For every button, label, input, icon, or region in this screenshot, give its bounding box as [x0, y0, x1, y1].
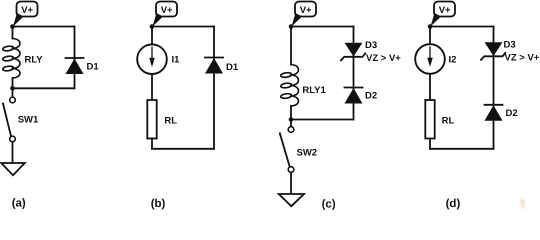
power flag V+ (b) — [153, 2, 178, 27]
svg-text:(a): (a) — [12, 198, 26, 210]
svg-text:I1: I1 — [172, 54, 181, 65]
wire: switch to ground (c) — [290, 172, 292, 193]
wire: V+ to current source (d) — [429, 27, 431, 44]
node: bottom junction dot (c) — [289, 117, 294, 122]
resistor RL (d) — [425, 100, 434, 139]
power flag V+ (d) — [431, 2, 456, 27]
svg-text:RL: RL — [164, 116, 177, 127]
wire: right vertical branch (c) — [353, 27, 355, 120]
svg-text:D1: D1 — [87, 62, 100, 73]
switch SW2 — [280, 127, 294, 173]
wire: switch to ground (a) — [12, 142, 14, 162]
wire: top rail (c) — [291, 26, 354, 28]
svg-text:SW2: SW2 — [297, 148, 318, 159]
wire: right vertical branch (b) — [213, 27, 215, 149]
wire: coil bottom to junction (c) — [290, 106, 292, 120]
diode D2 (c) — [345, 88, 363, 104]
inductor RLY (a) — [2, 39, 20, 79]
svg-text:D1: D1 — [226, 62, 239, 73]
svg-text:VZ > V+: VZ > V+ — [505, 53, 540, 64]
svg-text:D3: D3 — [504, 40, 516, 51]
node: V+ junction dot (a) — [10, 24, 15, 29]
inductor RLY1 — [280, 65, 298, 107]
zener diode D3 (d) — [481, 42, 505, 60]
svg-text:V+: V+ — [439, 5, 451, 16]
svg-text:D2: D2 — [506, 108, 518, 119]
node: V+ junction dot (d) — [428, 24, 433, 29]
wire: right vertical branch (d) — [493, 27, 495, 149]
switch SW1 — [3, 97, 15, 142]
node: V+ junction dot (b) — [150, 24, 155, 29]
svg-text:V+: V+ — [21, 5, 33, 16]
svg-text:D2: D2 — [365, 90, 377, 101]
diode D1 (b) — [205, 58, 223, 74]
wire: current source to resistor (d) — [429, 74, 431, 100]
wire: V+ to current source (b) — [151, 27, 153, 44]
svg-text:RLY1: RLY1 — [302, 85, 326, 96]
svg-text:(c): (c) — [322, 199, 336, 210]
svg-text:I2: I2 — [449, 54, 457, 65]
wire: top rail (d) — [430, 26, 494, 28]
svg-text:VZ > V+: VZ > V+ — [366, 53, 401, 64]
diode D1 (a) — [66, 58, 84, 74]
power flag V+ (a) — [13, 2, 38, 27]
wire: V+ to coil (c) — [290, 27, 292, 65]
diode D2 (d) — [485, 105, 503, 121]
svg-text:(b): (b) — [151, 198, 166, 210]
wire: junction to switch (a) — [12, 91, 14, 97]
wire: left wire from V+ to coil (a) — [12, 27, 14, 39]
svg-text:RLY: RLY — [25, 54, 44, 65]
power flag V+ (c) — [292, 2, 317, 27]
svg-text:RL: RL — [442, 116, 455, 127]
svg-text:D3: D3 — [365, 40, 377, 51]
wire: top rail (a) — [13, 26, 75, 28]
wire: current source to resistor (b) — [151, 74, 153, 100]
wire: junction to switch (c) — [290, 122, 292, 127]
node: V+ junction dot (c) — [289, 24, 294, 29]
node: bottom junction dot (a) — [10, 86, 15, 91]
svg-text:t: t — [521, 195, 526, 210]
svg-text:V+: V+ — [161, 5, 173, 16]
current source I1 — [137, 44, 167, 74]
wire: coil bottom to junction (a) — [12, 78, 14, 88]
ground (c) — [279, 194, 304, 206]
wire: bottom rail (d) — [430, 148, 494, 150]
svg-text:(d): (d) — [446, 198, 461, 210]
svg-text:SW1: SW1 — [18, 115, 39, 126]
current source I2 — [415, 44, 445, 74]
wire: bottom rail (c) — [291, 119, 354, 121]
wire: right vertical branch (a) — [74, 27, 76, 89]
ground (a) — [1, 163, 25, 175]
zener diode D3 (c) — [341, 43, 365, 61]
wire: resistor to bottom rail (b) — [151, 139, 153, 149]
wire: bottom rail (a) — [13, 87, 75, 89]
svg-text:V+: V+ — [300, 5, 312, 16]
wire: top rail (b) — [152, 26, 214, 28]
wire: resistor to bottom rail (d) — [429, 139, 431, 149]
resistor RL (b) — [147, 100, 156, 139]
wire: bottom rail (b) — [152, 148, 214, 150]
